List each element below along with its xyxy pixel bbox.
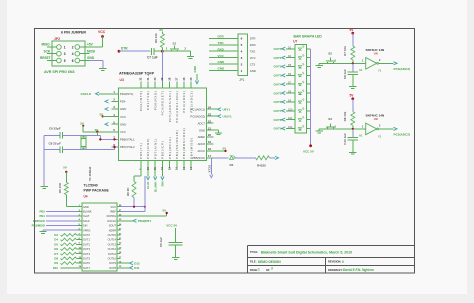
- svg-text:OUT13: OUT13: [108, 242, 117, 246]
- svg-text:VCC: VCC: [111, 205, 117, 209]
- svg-text:TXD: TXD: [250, 49, 256, 53]
- svg-text:XLAT: XLAT: [146, 181, 150, 189]
- svg-text:PD0(RXD): PD0(RXD): [153, 90, 157, 110]
- svg-text:MISO: MISO: [42, 43, 51, 47]
- svg-text:PD2(INT0): PD2(INT0): [139, 90, 143, 111]
- svg-text:OUT9: OUT9: [273, 127, 281, 131]
- svg-text:R6 2K: R6 2K: [126, 187, 130, 196]
- svg-text:D5: D5: [54, 242, 58, 246]
- svg-text:OUT1: OUT1: [273, 56, 281, 60]
- svg-text:PD5(T1): PD5(T1): [139, 142, 143, 159]
- svg-text:OUT12: OUT12: [108, 247, 117, 251]
- svg-text:D2: D2: [230, 163, 234, 167]
- svg-text:S2: S2: [328, 52, 332, 56]
- svg-text:PC6(RESET): PC6(RESET): [161, 90, 165, 115]
- svg-text:OUT2: OUT2: [83, 242, 90, 246]
- svg-text:VCC: VCC: [250, 56, 256, 60]
- svg-text:XERR: XERR: [109, 228, 116, 232]
- svg-text:Y1 16MHZ: Y1 16MHZ: [88, 166, 92, 181]
- svg-text:PC4(ADC4/SDA): PC4(ADC4/SDA): [175, 90, 179, 122]
- svg-text:OUT8: OUT8: [109, 266, 116, 270]
- svg-text:SIN: SIN: [83, 224, 87, 228]
- svg-text:D10: D10: [53, 266, 59, 270]
- svg-text:RXD: RXD: [250, 43, 256, 47]
- svg-text:SOUT: SOUT: [109, 224, 117, 228]
- svg-text:PB0(ICP): PB0(ICP): [161, 140, 165, 159]
- svg-text:PD7(AIN1): PD7(AIN1): [153, 138, 157, 159]
- svg-text:S1: S1: [173, 42, 177, 46]
- svg-text:PB5/SCK: PB5/SCK: [33, 219, 45, 223]
- svg-text:GND: GND: [87, 56, 95, 60]
- svg-text:PB2: PB2: [40, 210, 46, 214]
- svg-text:PC5(ADC5/SCL): PC5(ADC5/SCL): [168, 90, 172, 122]
- svg-text:PB2(SS/OC1B): PB2(SS/OC1B): [175, 129, 179, 159]
- svg-text:D4: D4: [54, 238, 58, 242]
- svg-text:5V: 5V: [223, 147, 227, 151]
- svg-text:D12: D12: [134, 261, 140, 265]
- svg-text:D9: D9: [54, 261, 58, 265]
- svg-text:U6Y1: U6Y1: [223, 107, 231, 111]
- svg-text:PB7(XTAL2: PB7(XTAL2: [120, 145, 135, 149]
- svg-text:A1: A1: [359, 134, 363, 138]
- svg-text:OUT14: OUT14: [108, 238, 117, 242]
- svg-text:FILE:: FILE:: [250, 260, 257, 264]
- svg-text:R9 10k: R9 10k: [154, 33, 158, 43]
- svg-text:VCC: VCC: [218, 54, 225, 58]
- svg-text:C8 22 pF: C8 22 pF: [49, 141, 62, 145]
- svg-text:1: 1: [258, 268, 260, 272]
- svg-text:C10 1uF: C10 1uF: [343, 133, 347, 145]
- svg-text:OUT7: OUT7: [83, 266, 90, 270]
- svg-text:GSCLK: GSCLK: [107, 219, 116, 223]
- svg-text:BLANK: BLANK: [83, 210, 92, 214]
- svg-text:GND: GND: [120, 122, 126, 126]
- svg-text:C7 1uF: C7 1uF: [147, 56, 158, 60]
- svg-text:GND: GND: [120, 107, 126, 111]
- svg-text:PD6(AIN0): PD6(AIN0): [146, 138, 150, 159]
- svg-text:VCC: VCC: [120, 130, 126, 134]
- svg-text:OUT4: OUT4: [83, 252, 90, 256]
- svg-text:D7: D7: [54, 252, 58, 256]
- svg-text:6 PIN JUMPER: 6 PIN JUMPER: [61, 31, 86, 35]
- svg-text:3: 3: [64, 52, 66, 56]
- svg-text:ADC6: ADC6: [198, 142, 206, 146]
- svg-text:PC2(ADC2): PC2(ADC2): [394, 132, 411, 136]
- svg-text:TITLE:: TITLE:: [250, 250, 258, 254]
- svg-text:XLAT: XLAT: [83, 214, 90, 218]
- svg-text:VCC 5V: VCC 5V: [303, 150, 314, 154]
- svg-text:GND: GND: [218, 67, 226, 71]
- svg-text:PB3/MOSI: PB3/MOSI: [32, 224, 46, 228]
- svg-text:PB1: PB1: [40, 214, 46, 218]
- svg-text:DTR: DTR: [218, 34, 225, 38]
- svg-text:AREF: AREF: [198, 135, 206, 139]
- svg-text:PC3(ADC3): PC3(ADC3): [394, 67, 411, 71]
- svg-text:SCLK: SCLK: [207, 165, 211, 173]
- svg-text:OUT5: OUT5: [273, 91, 281, 95]
- svg-text:D11: D11: [134, 266, 140, 270]
- svg-text:A1: A1: [359, 68, 363, 72]
- svg-text:TLC5940: TLC5940: [84, 184, 98, 188]
- svg-text:PC3(ADC3): PC3(ADC3): [182, 90, 186, 112]
- svg-text:U10Y1: U10Y1: [223, 114, 233, 118]
- svg-text:OUT1: OUT1: [83, 238, 90, 242]
- svg-text:U3: U3: [120, 78, 124, 82]
- svg-text:R5 10K: R5 10K: [58, 182, 62, 193]
- svg-text:1: 1: [64, 45, 66, 49]
- svg-text:OUT0: OUT0: [273, 47, 281, 51]
- svg-text:JP1: JP1: [239, 78, 245, 82]
- svg-text:OUT5: OUT5: [83, 257, 90, 261]
- svg-text:OUT15: OUT15: [108, 233, 117, 237]
- svg-text:OUT3: OUT3: [273, 74, 281, 78]
- svg-text:OUT6: OUT6: [83, 261, 90, 265]
- svg-text:Blakneite Smart Suit Digital S: Blakneite Smart Suit Digital Schematics,…: [261, 251, 352, 255]
- svg-text:OUT11: OUT11: [108, 252, 117, 256]
- svg-text:TXD: TXD: [218, 41, 225, 45]
- svg-text:4: 4: [72, 52, 74, 56]
- svg-text:5V: 5V: [163, 209, 167, 213]
- svg-text:OF: OF: [266, 268, 270, 272]
- svg-text:D10: D10: [288, 108, 293, 111]
- svg-text:GND: GND: [199, 128, 205, 132]
- svg-text:Y1: Y1: [378, 69, 382, 73]
- svg-text:VCC: VCC: [98, 30, 106, 34]
- svg-text:C5 1uF: C5 1uF: [159, 237, 163, 247]
- svg-text:R8 10k: R8 10k: [343, 111, 347, 121]
- svg-text:PB5(SCK): PB5(SCK): [192, 156, 205, 160]
- svg-text:OUT7: OUT7: [273, 109, 281, 113]
- svg-text:AVR SPI PRG 6N3: AVR SPI PRG 6N3: [44, 70, 75, 74]
- svg-text:OUT6: OUT6: [273, 100, 281, 104]
- svg-text:VCC 5V: VCC 5V: [166, 224, 177, 228]
- svg-text:D3: D3: [54, 233, 58, 237]
- svg-text:OUT0: OUT0: [83, 233, 90, 237]
- svg-text:PD4: PD4: [120, 100, 126, 104]
- svg-text:IREF: IREF: [110, 210, 116, 214]
- svg-text:PD3(INT1): PD3(INT1): [120, 92, 133, 96]
- svg-text:PAGE:: PAGE:: [250, 268, 258, 272]
- svg-text:OUT8: OUT8: [273, 118, 281, 122]
- svg-text:CTS: CTS: [250, 62, 256, 66]
- svg-text:D11: D11: [288, 117, 293, 120]
- svg-text:5V: 5V: [63, 166, 67, 170]
- svg-text:3: 3: [271, 267, 273, 271]
- svg-text:DCPRG: DCPRG: [107, 214, 116, 218]
- svg-text:C8 1uF: C8 1uF: [343, 69, 347, 79]
- svg-text:OUT10: OUT10: [108, 257, 117, 261]
- svg-text:D12: D12: [288, 126, 293, 129]
- svg-text:0: 0: [342, 260, 344, 264]
- svg-text:RESET: RESET: [40, 56, 51, 60]
- svg-text:GND: GND: [250, 69, 256, 73]
- svg-text:SIN: SIN: [161, 182, 165, 187]
- svg-text:PB1(OC1A): PB1(OC1A): [168, 137, 172, 159]
- svg-text:PB6(XTAL1: PB6(XTAL1: [120, 138, 135, 142]
- svg-text:OUT2: OUT2: [273, 65, 281, 69]
- svg-text:VCC: VCC: [120, 115, 126, 119]
- svg-text:PC0(ADC0): PC0(ADC0): [190, 114, 205, 118]
- svg-text:SCK: SCK: [44, 49, 51, 53]
- svg-text:SCLK: SCLK: [83, 219, 90, 223]
- svg-text:D6: D6: [54, 247, 58, 251]
- svg-text:R4220: R4220: [257, 164, 266, 168]
- svg-text:6: 6: [72, 59, 74, 63]
- svg-text:OUT3: OUT3: [83, 247, 90, 251]
- svg-text:U6: U6: [374, 51, 378, 55]
- svg-text:PD1(TXD): PD1(TXD): [146, 90, 150, 110]
- svg-text:David E.F.N. Nghiem: David E.F.N. Nghiem: [343, 268, 374, 272]
- svg-text:DTR: DTR: [121, 46, 128, 50]
- svg-text:+5V: +5V: [87, 43, 94, 47]
- svg-text:ADC7: ADC7: [198, 121, 206, 125]
- svg-text:2: 2: [72, 45, 74, 49]
- svg-text:DEMO DESIGN: DEMO DESIGN: [258, 260, 281, 264]
- svg-text:U9: U9: [374, 117, 378, 121]
- svg-text:GND: GND: [218, 60, 226, 64]
- svg-text:PWP PACKAGE: PWP PACKAGE: [84, 189, 110, 193]
- svg-text:GSCLK: GSCLK: [81, 92, 92, 96]
- svg-text:DRAWN BY:: DRAWN BY:: [328, 268, 343, 272]
- svg-text:S3: S3: [328, 117, 332, 121]
- svg-text:GND: GND: [193, 65, 197, 73]
- svg-text:C6 22pF: C6 22pF: [49, 127, 61, 131]
- svg-text:BLANK: BLANK: [153, 181, 157, 192]
- svg-text:D8: D8: [54, 257, 58, 261]
- svg-text:MOSI: MOSI: [87, 49, 95, 53]
- svg-text:ATMEGA328P TQFP: ATMEGA328P TQFP: [119, 71, 155, 75]
- svg-text:PC1(ADC1): PC1(ADC1): [190, 107, 205, 111]
- svg-text:U4: U4: [84, 195, 88, 199]
- svg-text:OUT9: OUT9: [109, 261, 116, 265]
- svg-text:PD3(INT1: PD3(INT1: [138, 219, 152, 223]
- svg-text:GND: GND: [83, 205, 89, 209]
- svg-text:U7: U7: [293, 39, 297, 43]
- svg-text:Y1: Y1: [378, 134, 382, 138]
- svg-text:DTR: DTR: [250, 37, 256, 41]
- svg-text:VPRG: VPRG: [83, 228, 90, 232]
- svg-text:RXD: RXD: [218, 47, 225, 51]
- svg-text:OUT4: OUT4: [273, 82, 281, 86]
- svg-text:R7 10k: R7 10k: [343, 46, 347, 56]
- svg-text:REVISION:: REVISION:: [328, 260, 341, 264]
- svg-text:5: 5: [64, 59, 66, 63]
- svg-text:AVCC: AVCC: [198, 149, 206, 153]
- svg-text:BAR GRAPH LED: BAR GRAPH LED: [294, 35, 323, 39]
- svg-text:PB3(MOSI/OC2): PB3(MOSI/OC2): [182, 127, 186, 159]
